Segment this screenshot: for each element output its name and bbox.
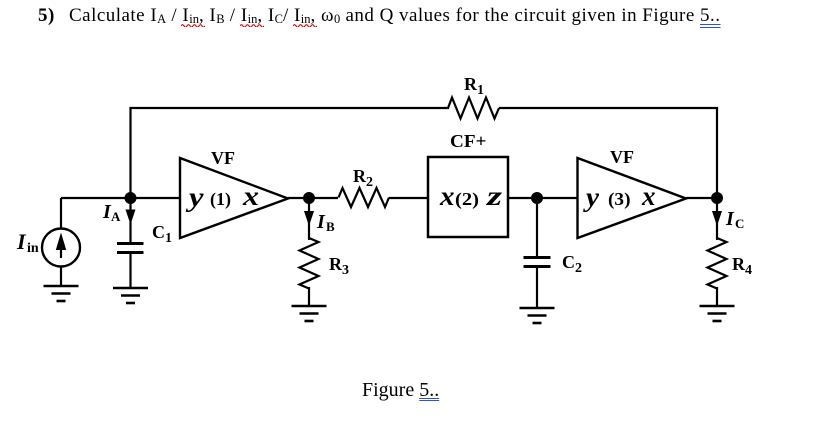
svg-text:y: y: [583, 182, 600, 212]
node A: [125, 192, 137, 204]
node B: [303, 192, 315, 204]
wire: amp 1 output to node B: [288, 197, 338, 199]
svg-text:2: 2: [366, 175, 373, 190]
svg-text:y: y: [185, 182, 204, 212]
svg-text:CF+: CF+: [450, 131, 487, 151]
wire: R4 to ground: [716, 287, 718, 306]
ground (under R3): [292, 306, 327, 321]
svg-text:R: R: [353, 166, 367, 186]
svg-text:x: x: [439, 181, 455, 211]
wire: R3 to ground: [308, 287, 310, 306]
svg-text:VF: VF: [610, 147, 634, 167]
node D: [711, 192, 723, 204]
wire: node A up to feedback rail: [129, 108, 131, 198]
node C: [531, 192, 543, 204]
wire: current source to ground: [60, 267, 62, 287]
svg-text:x: x: [242, 181, 259, 211]
wire: C2 to ground: [536, 267, 538, 309]
capacitor C2: [524, 258, 551, 267]
svg-text:(3): (3): [608, 189, 631, 210]
wire: feedback rail left segment: [129, 107, 449, 109]
svg-text:2: 2: [575, 261, 582, 276]
svg-text:C: C: [562, 252, 575, 272]
svg-text:4: 4: [745, 263, 752, 278]
svg-text:R: R: [464, 74, 478, 94]
svg-text:1: 1: [477, 83, 484, 98]
svg-text:(1): (1): [210, 189, 231, 210]
svg-text:R: R: [329, 254, 343, 274]
svg-text:R: R: [732, 254, 746, 274]
arrow IA: [126, 198, 136, 243]
wire: box to amp 2 input: [508, 197, 578, 199]
svg-text:in: in: [27, 241, 39, 256]
ground (under R4): [700, 306, 735, 321]
arrow IB: [304, 198, 314, 240]
svg-text:A: A: [111, 209, 121, 224]
figure caption: [362, 379, 439, 402]
svg-text:VF: VF: [211, 148, 235, 168]
wire: amp 2 output to node D: [686, 197, 718, 199]
wire: input node to amp 1 input: [61, 197, 180, 199]
wire: C1 to ground: [129, 253, 131, 289]
title line: [38, 6, 720, 26]
wire: current source top stub: [60, 198, 62, 229]
ground (under Iin): [44, 286, 79, 301]
ground (under C2): [520, 308, 555, 323]
svg-text:I: I: [16, 229, 27, 254]
svg-text:1: 1: [165, 231, 172, 246]
current conveyor U2 (CF+) box: [428, 157, 508, 237]
svg-text:C: C: [735, 216, 744, 231]
wire: R2 to conveyor box: [389, 197, 428, 199]
svg-text:3: 3: [342, 263, 349, 278]
svg-text:x: x: [641, 181, 656, 211]
svg-text:(2): (2): [455, 189, 479, 210]
resistor R3: [300, 238, 319, 289]
wire: feedback rail down to node D: [716, 108, 718, 198]
capacitor C1: [117, 244, 144, 253]
arrow IC: [712, 198, 722, 240]
svg-text:C: C: [152, 222, 165, 242]
svg-text:B: B: [326, 219, 335, 234]
ground (under C1): [113, 288, 148, 303]
svg-text:z: z: [486, 181, 503, 211]
resistor R4: [708, 238, 727, 289]
resistor R1: [448, 98, 499, 119]
op-amp U3 (VF buffer 2): [578, 158, 687, 238]
current source Iin: [42, 229, 80, 267]
svg-text:I: I: [316, 211, 326, 233]
op-amp U1 (VF buffer 1): [180, 158, 288, 238]
svg-text:I: I: [725, 208, 735, 230]
resistor R2: [339, 188, 390, 207]
wire: node C down to C2: [536, 198, 538, 258]
wire: feedback rail right segment: [499, 107, 718, 109]
